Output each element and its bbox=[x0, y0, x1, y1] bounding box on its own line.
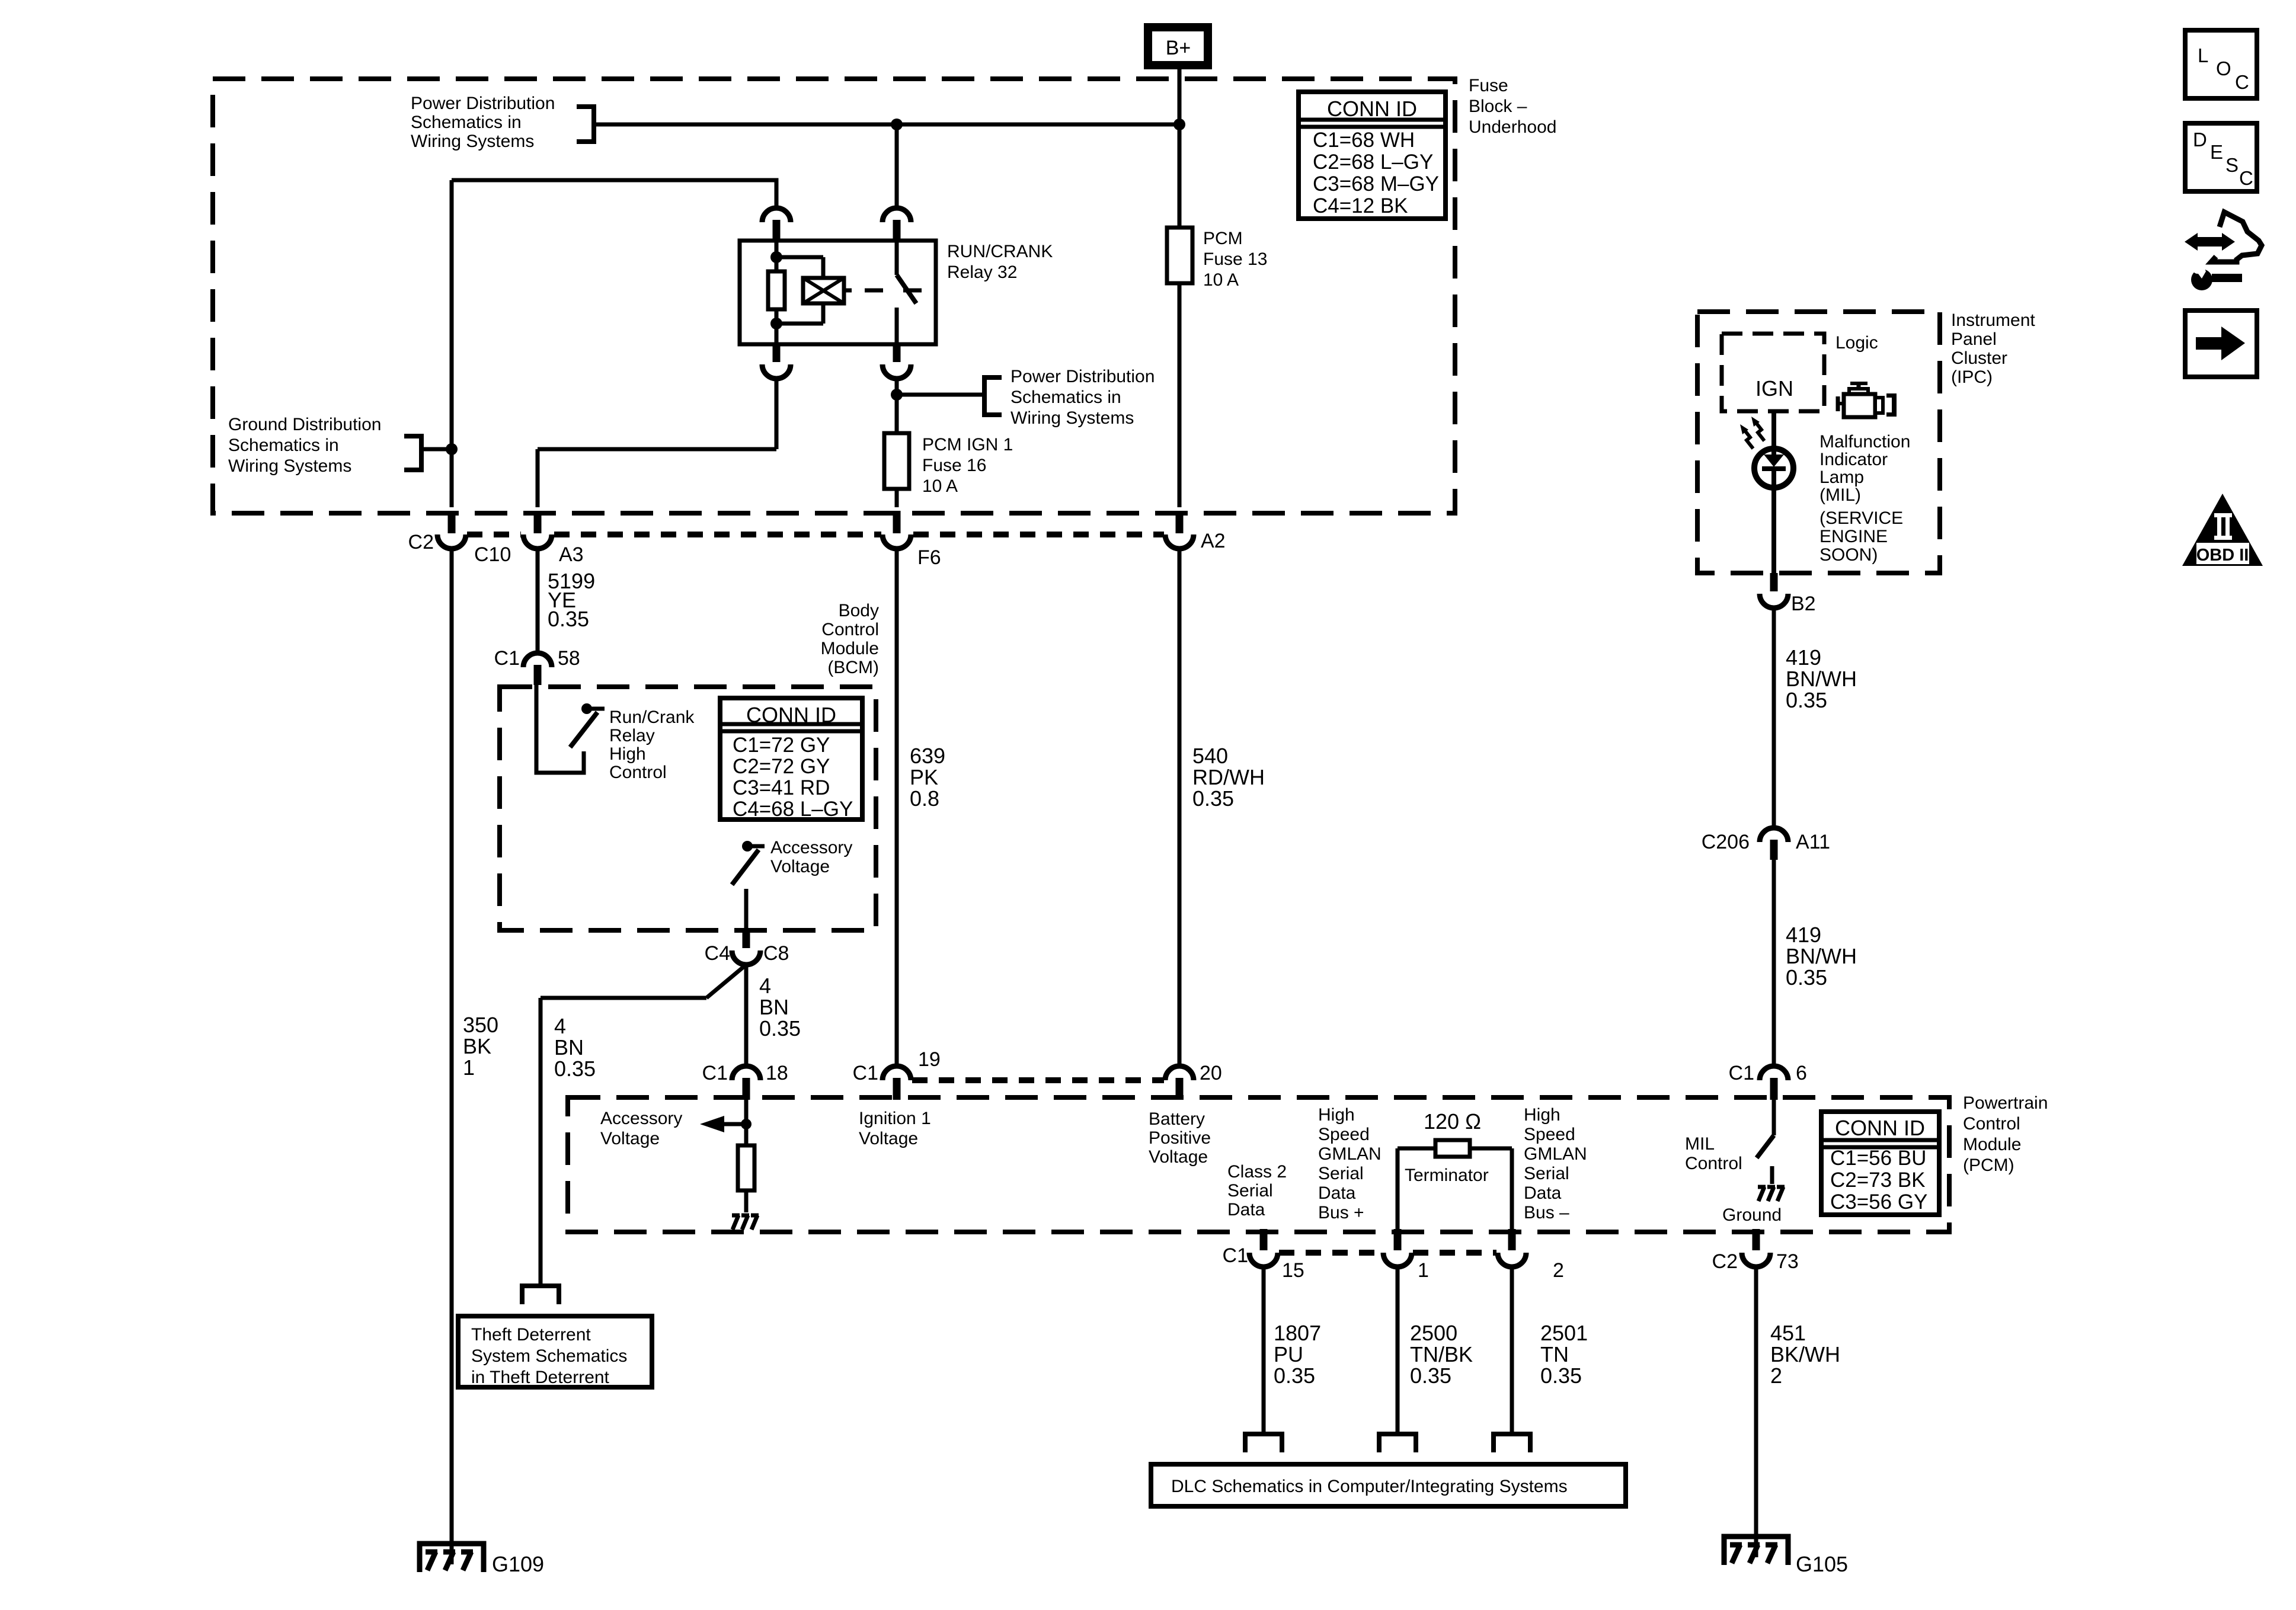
wire run/crank relay high control bbox=[536, 685, 584, 773]
svg-text:TN/BK: TN/BK bbox=[1410, 1342, 1473, 1366]
svg-text:OBD II: OBD II bbox=[2196, 546, 2249, 565]
svg-text:Module: Module bbox=[1963, 1135, 2021, 1154]
svg-text:Voltage: Voltage bbox=[600, 1129, 660, 1148]
wire B2 to C206 bbox=[1772, 608, 1776, 828]
svg-text:Bus +: Bus + bbox=[1318, 1203, 1364, 1222]
offpage connector DLC 15 bbox=[1245, 1434, 1282, 1452]
B+ battery feed symbol bbox=[1148, 27, 1208, 65]
wire 1807 PU bbox=[1262, 1267, 1266, 1434]
svg-text:(SERVICE: (SERVICE bbox=[1819, 508, 1903, 528]
ground small PCM accessory bbox=[732, 1214, 740, 1218]
relay switch blade bbox=[897, 275, 916, 303]
svg-text:C1: C1 bbox=[702, 1062, 728, 1084]
ground small PCM MIL bbox=[1758, 1185, 1766, 1189]
svg-text:Instrument: Instrument bbox=[1951, 311, 2035, 330]
svg-text:C2: C2 bbox=[408, 531, 434, 553]
svg-text:Terminator: Terminator bbox=[1405, 1166, 1489, 1185]
junction dot power wire at relay switch feed bbox=[891, 119, 903, 130]
wire 2500 TN/BK bbox=[1396, 1267, 1400, 1434]
svg-text:639: 639 bbox=[910, 744, 945, 768]
svg-text:Indicator: Indicator bbox=[1819, 450, 1888, 469]
svg-text:4: 4 bbox=[554, 1014, 566, 1038]
svg-text:CONN ID: CONN ID bbox=[746, 703, 836, 727]
dotted connector row pins 19-20 bbox=[912, 1077, 1164, 1083]
svg-text:RUN/CRANK: RUN/CRANK bbox=[947, 242, 1053, 261]
svg-text:419: 419 bbox=[1786, 923, 1821, 947]
svg-text:S: S bbox=[2225, 154, 2239, 176]
relay RUN/CRANK Relay 32 box bbox=[740, 241, 936, 344]
connector F6 stub bbox=[893, 511, 901, 533]
connector C206 arc bbox=[1760, 828, 1788, 842]
svg-text:C1: C1 bbox=[1729, 1062, 1754, 1084]
connector 2 stub bbox=[1508, 1229, 1516, 1250]
svg-text:Ignition 1: Ignition 1 bbox=[859, 1109, 931, 1128]
BCM run/crank switch output stub bbox=[587, 707, 605, 711]
connector A2 arc bbox=[1165, 534, 1194, 549]
svg-text:C1=68 WH: C1=68 WH bbox=[1313, 129, 1415, 152]
svg-text:C8: C8 bbox=[763, 942, 789, 965]
svg-text:Accessory: Accessory bbox=[600, 1109, 682, 1128]
svg-text:Serial: Serial bbox=[1318, 1164, 1364, 1183]
connector 20 stub bbox=[1176, 1078, 1184, 1100]
svg-text:0.35: 0.35 bbox=[1540, 1363, 1582, 1388]
svg-text:Powertrain: Powertrain bbox=[1963, 1093, 2048, 1113]
svg-text:A3: A3 bbox=[559, 543, 584, 566]
wire relay switch feed down bbox=[895, 124, 899, 209]
junction dot power wire at B+ wire bbox=[1173, 119, 1185, 130]
connector C4/C8 arc bbox=[732, 950, 760, 965]
PCM MIL switch blade bbox=[1757, 1135, 1774, 1158]
IPC dashed box bbox=[1697, 312, 1940, 573]
connector 1 stub bbox=[1394, 1229, 1402, 1250]
connector B2 stub bbox=[1770, 573, 1778, 591]
svg-text:(IPC): (IPC) bbox=[1951, 367, 1993, 387]
svg-text:TN: TN bbox=[1540, 1342, 1569, 1366]
fuse block CONN ID header line bbox=[1299, 118, 1446, 122]
wire theft deterrent horizontal bbox=[541, 996, 706, 1000]
svg-text:Power Distribution: Power Distribution bbox=[411, 94, 555, 113]
svg-text:Run/Crank: Run/Crank bbox=[609, 708, 695, 727]
PCM pullup resistor bbox=[738, 1145, 754, 1190]
svg-text:15: 15 bbox=[1282, 1259, 1304, 1282]
svg-text:0.35: 0.35 bbox=[1786, 965, 1827, 990]
svg-text:0.35: 0.35 bbox=[1274, 1363, 1315, 1388]
svg-text:Speed: Speed bbox=[1318, 1125, 1370, 1144]
fuse block CONN ID table box bbox=[1299, 92, 1446, 219]
svg-text:C1: C1 bbox=[853, 1062, 878, 1084]
svg-text:Ground Distribution: Ground Distribution bbox=[228, 415, 381, 434]
svg-text:0.35: 0.35 bbox=[1410, 1363, 1451, 1388]
svg-text:C4: C4 bbox=[705, 942, 730, 965]
svg-text:10 A: 10 A bbox=[922, 476, 958, 496]
relay switch pin bottom stub bbox=[893, 344, 901, 362]
svg-text:(BCM): (BCM) bbox=[827, 658, 879, 677]
svg-text:C206: C206 bbox=[1702, 831, 1750, 853]
svg-text:Relay: Relay bbox=[609, 726, 655, 745]
BCM accessory voltage switch stub bbox=[747, 844, 765, 849]
svg-text:120 Ω: 120 Ω bbox=[1424, 1109, 1481, 1134]
svg-text:0.35: 0.35 bbox=[548, 607, 589, 631]
svg-text:Logic: Logic bbox=[1835, 333, 1878, 353]
PCM CONN ID header line bbox=[1821, 1138, 1939, 1142]
IPC logic dashed box bbox=[1722, 334, 1824, 411]
svg-text:A11: A11 bbox=[1796, 831, 1830, 853]
svg-text:ENGINE: ENGINE bbox=[1819, 527, 1888, 546]
svg-text:1807: 1807 bbox=[1274, 1321, 1321, 1345]
icon double arrow bbox=[2193, 237, 2227, 247]
svg-text:System Schematics: System Schematics bbox=[471, 1346, 627, 1366]
wire C206 to C1-6 bbox=[1772, 860, 1776, 1067]
wire jog to A3 bbox=[538, 447, 776, 452]
offpage connector DLC 1 bbox=[1379, 1434, 1416, 1452]
fuse PCM Fuse 13 bbox=[1167, 228, 1192, 283]
svg-text:O: O bbox=[2216, 57, 2231, 79]
svg-text:Control: Control bbox=[609, 763, 667, 782]
wire power distribution horizontal bbox=[594, 123, 1179, 127]
svg-text:C2=73 BK: C2=73 BK bbox=[1830, 1169, 1926, 1192]
relay actuator dashed link bbox=[865, 289, 883, 293]
svg-text:PCM IGN 1: PCM IGN 1 bbox=[922, 435, 1013, 454]
connector C1 18 arc bbox=[732, 1066, 760, 1080]
BCM accessory voltage switch blade bbox=[732, 850, 759, 885]
wire 5199 YE down to C1-58 bbox=[536, 549, 540, 654]
svg-text:C: C bbox=[2239, 167, 2253, 189]
svg-text:Underhood: Underhood bbox=[1469, 117, 1556, 137]
svg-text:High: High bbox=[609, 744, 646, 764]
svg-text:B+: B+ bbox=[1166, 37, 1191, 59]
svg-text:BN/WH: BN/WH bbox=[1786, 667, 1857, 691]
svg-text:Cluster: Cluster bbox=[1951, 348, 2007, 368]
wire 639 PK F6 to C1-19 bbox=[895, 549, 899, 1067]
svg-text:MIL: MIL bbox=[1685, 1134, 1715, 1154]
svg-text:PCM: PCM bbox=[1203, 229, 1243, 248]
svg-text:Schematics in: Schematics in bbox=[228, 436, 339, 455]
terminator resistor bbox=[1435, 1140, 1470, 1157]
wire BCM accessory output bbox=[744, 889, 749, 930]
svg-text:73: 73 bbox=[1776, 1250, 1799, 1273]
svg-text:Block –: Block – bbox=[1469, 97, 1527, 116]
MIL LED arrow 1 bbox=[1744, 429, 1753, 449]
PCM dashed box bbox=[568, 1097, 1949, 1232]
wire theft deterrent vertical bbox=[539, 998, 543, 1286]
bracket ground distribution schematics bbox=[404, 436, 421, 470]
svg-text:Data: Data bbox=[1318, 1183, 1356, 1203]
svg-text:350: 350 bbox=[463, 1013, 498, 1037]
connector 20 arc bbox=[1165, 1066, 1194, 1080]
svg-text:Fuse 16: Fuse 16 bbox=[922, 456, 986, 475]
svg-text:C1=56 BU: C1=56 BU bbox=[1830, 1147, 1926, 1170]
svg-text:Relay 32: Relay 32 bbox=[947, 263, 1017, 282]
offpage connector DLC 2 bbox=[1494, 1434, 1530, 1452]
connector B2 arc bbox=[1760, 594, 1788, 608]
svg-text:58: 58 bbox=[558, 647, 580, 670]
bracket power distribution schematics 1 bbox=[577, 107, 594, 142]
svg-text:19: 19 bbox=[918, 1048, 941, 1071]
wire terminator right bbox=[1470, 1147, 1512, 1151]
svg-text:C2=68 L–GY: C2=68 L–GY bbox=[1313, 151, 1433, 174]
PCM MIL switch contact bbox=[1772, 1100, 1776, 1135]
svg-text:Bus –: Bus – bbox=[1524, 1203, 1569, 1222]
svg-text:451: 451 bbox=[1770, 1321, 1806, 1345]
svg-text:Control: Control bbox=[1963, 1114, 2020, 1134]
svg-text:C1: C1 bbox=[494, 647, 520, 670]
svg-text:CONN ID: CONN ID bbox=[1835, 1116, 1925, 1140]
svg-text:Control: Control bbox=[1685, 1154, 1742, 1173]
connector C1 58 arc bbox=[523, 653, 552, 667]
svg-text:PK: PK bbox=[910, 765, 938, 789]
connector C2 stub bbox=[448, 511, 456, 533]
svg-text:C3=41 RD: C3=41 RD bbox=[733, 776, 830, 799]
svg-text:0.35: 0.35 bbox=[554, 1057, 596, 1081]
svg-text:4: 4 bbox=[759, 974, 771, 998]
svg-text:Body: Body bbox=[839, 601, 879, 620]
svg-text:Schematics in: Schematics in bbox=[1011, 388, 1121, 407]
svg-text:18: 18 bbox=[766, 1062, 788, 1084]
relay solenoid actuator stub bbox=[844, 289, 852, 293]
svg-text:0.35: 0.35 bbox=[759, 1016, 801, 1041]
svg-text:Malfunction: Malfunction bbox=[1819, 432, 1910, 452]
connector 1 arc bbox=[1383, 1253, 1412, 1267]
svg-text:A2: A2 bbox=[1201, 530, 1226, 552]
svg-text:C: C bbox=[2235, 71, 2249, 93]
relay coil pin top connector arc bbox=[762, 208, 791, 222]
svg-text:2: 2 bbox=[1770, 1363, 1782, 1388]
svg-text:DLC Schematics in Computer/Int: DLC Schematics in Computer/Integrating S… bbox=[1171, 1477, 1568, 1496]
wire resistor to ground bbox=[744, 1190, 749, 1212]
DLC schematics box bbox=[1151, 1464, 1626, 1506]
svg-text:Battery: Battery bbox=[1149, 1109, 1205, 1129]
wire 451 BK/WH to G105 bbox=[1754, 1267, 1758, 1557]
svg-text:(MIL): (MIL) bbox=[1819, 485, 1861, 505]
relay switch pin bottom connector arc bbox=[882, 364, 911, 379]
svg-text:Control: Control bbox=[821, 620, 879, 639]
connector C1 19 stub bbox=[893, 1078, 901, 1100]
svg-text:High: High bbox=[1318, 1105, 1355, 1125]
connector A2 stub bbox=[1176, 511, 1184, 533]
svg-text:Voltage: Voltage bbox=[1149, 1147, 1208, 1167]
svg-text:10 A: 10 A bbox=[1203, 270, 1239, 290]
svg-text:Data: Data bbox=[1227, 1200, 1265, 1219]
svg-text:0.8: 0.8 bbox=[910, 786, 939, 811]
relay switch pin top connector arc bbox=[882, 208, 911, 222]
relay coil pin bottom stub bbox=[773, 344, 781, 362]
wire diagonal from C4/C8 bbox=[706, 965, 746, 998]
wire relay coil pin bottom down bbox=[775, 379, 779, 449]
connector C1 58 stub bbox=[534, 665, 542, 685]
svg-text:F6: F6 bbox=[917, 546, 941, 569]
relay coil top junction dot bbox=[770, 251, 782, 263]
svg-text:C1: C1 bbox=[1223, 1244, 1248, 1267]
svg-text:20: 20 bbox=[1200, 1062, 1222, 1084]
svg-text:Theft Deterrent: Theft Deterrent bbox=[471, 1325, 591, 1345]
relay coil pin bottom connector arc bbox=[762, 364, 791, 379]
svg-text:Module: Module bbox=[821, 639, 879, 658]
wire coil loop top bbox=[776, 255, 823, 260]
svg-text:Panel: Panel bbox=[1951, 329, 1997, 349]
svg-text:Wiring Systems: Wiring Systems bbox=[1011, 408, 1134, 428]
svg-text:0.35: 0.35 bbox=[1192, 786, 1234, 811]
svg-text:B2: B2 bbox=[1791, 593, 1816, 615]
svg-text:C2=72 GY: C2=72 GY bbox=[733, 755, 830, 778]
svg-text:Serial: Serial bbox=[1227, 1181, 1273, 1201]
svg-text:PU: PU bbox=[1274, 1342, 1303, 1366]
svg-text:C3=56 GY: C3=56 GY bbox=[1830, 1190, 1927, 1214]
svg-text:C4=12 BK: C4=12 BK bbox=[1313, 194, 1408, 217]
wire coil loop bottom bbox=[821, 303, 826, 324]
dotted connector row fuse block bbox=[467, 532, 521, 537]
wire fuse 16 to F6 bbox=[895, 489, 899, 507]
relay solenoid box with X bbox=[803, 278, 844, 303]
svg-text:540: 540 bbox=[1192, 744, 1228, 768]
icon wrench bbox=[2212, 274, 2242, 282]
junction dot ground distribution bbox=[446, 443, 458, 455]
wire B+ down to PCM fuse 13 bbox=[1178, 67, 1182, 228]
svg-text:CONN ID: CONN ID bbox=[1327, 97, 1417, 121]
BCM run/crank switch blade bbox=[570, 712, 597, 747]
connector C10/A3 arc bbox=[523, 534, 552, 549]
MIL LED circle bbox=[1754, 449, 1793, 488]
connector C206 stub bbox=[1770, 840, 1778, 860]
BCM CONN ID header line bbox=[720, 722, 862, 726]
svg-text:0.35: 0.35 bbox=[1786, 688, 1827, 712]
connector 2 arc bbox=[1498, 1253, 1526, 1267]
svg-text:Fuse 13: Fuse 13 bbox=[1203, 249, 1267, 269]
wire relay coil pin to resistor bbox=[775, 241, 779, 271]
svg-text:Power Distribution: Power Distribution bbox=[1011, 367, 1155, 386]
wire IGN to LED bbox=[1771, 411, 1776, 456]
svg-text:G105: G105 bbox=[1796, 1552, 1848, 1576]
svg-text:Voltage: Voltage bbox=[770, 857, 830, 876]
svg-text:in Theft Deterrent: in Theft Deterrent bbox=[471, 1368, 610, 1387]
wire relay switch pin bottom down bbox=[895, 379, 899, 433]
svg-text:BN: BN bbox=[759, 995, 789, 1019]
wire 540 RD/WH A2 to pin 20 bbox=[1178, 549, 1182, 1067]
fuse block - underhood dashed box bbox=[213, 79, 1455, 513]
wire corner feed to relay coil bbox=[452, 180, 776, 209]
svg-text:BK: BK bbox=[463, 1034, 491, 1058]
wire LED to B2 bbox=[1771, 488, 1776, 573]
ground G105 symbol bbox=[1724, 1537, 1788, 1565]
wire C4/C8 to C1-18 bbox=[744, 965, 749, 1067]
svg-text:RD/WH: RD/WH bbox=[1192, 765, 1265, 789]
svg-text:Wiring Systems: Wiring Systems bbox=[228, 456, 351, 476]
wire to power distribution bracket 2 bbox=[897, 393, 984, 397]
svg-text:D: D bbox=[2193, 129, 2207, 151]
connector C1 6 arc bbox=[1760, 1066, 1788, 1080]
PCM accessory voltage junction dot bbox=[741, 1119, 752, 1129]
icon DESC box bbox=[2185, 123, 2257, 191]
svg-text:Serial: Serial bbox=[1524, 1164, 1569, 1183]
svg-text:2500: 2500 bbox=[1410, 1321, 1457, 1345]
connector C1 18 stub bbox=[743, 1078, 750, 1100]
BCM dashed box bbox=[500, 687, 876, 930]
connector C1 15 arc bbox=[1249, 1253, 1278, 1267]
icon forward arrow box bbox=[2185, 311, 2257, 377]
connector C1 19 arc bbox=[882, 1066, 911, 1080]
offpage connector theft bbox=[522, 1286, 559, 1304]
svg-text:Lamp: Lamp bbox=[1819, 468, 1864, 487]
svg-text:Speed: Speed bbox=[1524, 1125, 1575, 1144]
wire pin18 to resistor bbox=[744, 1100, 749, 1145]
svg-text:G109: G109 bbox=[492, 1552, 544, 1576]
svg-text:Schematics in: Schematics in bbox=[411, 113, 522, 132]
wire resistor to bottom dot bbox=[775, 309, 779, 344]
svg-text:2501: 2501 bbox=[1540, 1321, 1588, 1345]
svg-text:BN/WH: BN/WH bbox=[1786, 944, 1857, 968]
PCM MIL ground wire bbox=[1770, 1166, 1774, 1184]
connector C4/C8 stub bbox=[743, 930, 750, 948]
svg-text:Fuse: Fuse bbox=[1469, 76, 1508, 95]
engine icon bbox=[1850, 382, 1868, 385]
dotted connector row pins 15-1-2 bbox=[1279, 1250, 1382, 1256]
PCM CONN ID table box bbox=[1821, 1112, 1939, 1215]
connector C1 15 stub bbox=[1260, 1229, 1268, 1250]
MIL LED diode bar bbox=[1762, 466, 1786, 471]
wire 2501 TN bbox=[1510, 1267, 1514, 1434]
theft deterrent box bbox=[458, 1316, 652, 1387]
svg-text:419: 419 bbox=[1786, 645, 1821, 670]
svg-text:Accessory: Accessory bbox=[770, 838, 852, 857]
relay switch pin top stub bbox=[893, 220, 901, 241]
relay switch bottom contact bbox=[895, 308, 899, 344]
icon LOC box bbox=[2185, 30, 2257, 98]
fuse PCM IGN 1 Fuse 16 bbox=[884, 433, 909, 489]
PCM accessory voltage arrowhead bbox=[700, 1116, 724, 1132]
MIL LED arrow 2 bbox=[1755, 421, 1764, 441]
ground G109 symbol bbox=[420, 1544, 484, 1572]
svg-text:C2: C2 bbox=[1712, 1250, 1738, 1273]
svg-text:1: 1 bbox=[1418, 1259, 1429, 1282]
connector C2 73 arc bbox=[1742, 1253, 1770, 1267]
wire 350 BK 1 to G109 bbox=[450, 549, 454, 1564]
relay coil pin top stub bbox=[773, 220, 781, 241]
svg-text:C3=68 M–GY: C3=68 M–GY bbox=[1313, 172, 1439, 196]
connector C1 6 stub bbox=[1770, 1078, 1778, 1100]
svg-text:Positive: Positive bbox=[1149, 1128, 1211, 1148]
wire fuse 13 to A2 bbox=[1178, 283, 1182, 507]
svg-text:High: High bbox=[1524, 1105, 1560, 1125]
relay switch top contact bbox=[895, 241, 899, 275]
relay coil resistor bbox=[768, 271, 785, 309]
svg-text:2: 2 bbox=[1553, 1259, 1564, 1282]
svg-text:Voltage: Voltage bbox=[859, 1129, 918, 1148]
svg-text:(PCM): (PCM) bbox=[1963, 1156, 2014, 1175]
connector C2 arc bbox=[437, 534, 466, 549]
junction dot PCM IGN feed bbox=[891, 389, 903, 401]
svg-text:E: E bbox=[2210, 141, 2223, 163]
icon OBD II triangle bbox=[2182, 494, 2263, 566]
svg-text:BK/WH: BK/WH bbox=[1770, 1342, 1840, 1366]
svg-text:C10: C10 bbox=[474, 543, 511, 566]
BCM accessory voltage switch dot bbox=[742, 841, 753, 852]
svg-text:L: L bbox=[2198, 44, 2208, 66]
BCM run/crank switch dot bbox=[581, 703, 592, 714]
svg-text:C1=72 GY: C1=72 GY bbox=[733, 734, 830, 757]
relay coil bottom junction dot bbox=[770, 318, 782, 329]
wire terminator left bbox=[1398, 1147, 1435, 1151]
bracket power distribution schematics 2 bbox=[984, 377, 1002, 415]
svg-text:Ground: Ground bbox=[1722, 1205, 1782, 1225]
wire ground distribution to C2 bbox=[421, 447, 452, 452]
svg-text:GMLAN: GMLAN bbox=[1524, 1144, 1587, 1164]
svg-text:C4=68 L–GY: C4=68 L–GY bbox=[733, 798, 853, 821]
svg-text:Class 2: Class 2 bbox=[1227, 1162, 1287, 1182]
wire C2 vertical upper bbox=[450, 180, 454, 507]
svg-text:Data: Data bbox=[1524, 1183, 1562, 1203]
BCM CONN ID table box bbox=[720, 698, 862, 820]
svg-text:IGN: IGN bbox=[1755, 376, 1793, 401]
svg-text:1: 1 bbox=[463, 1055, 475, 1080]
